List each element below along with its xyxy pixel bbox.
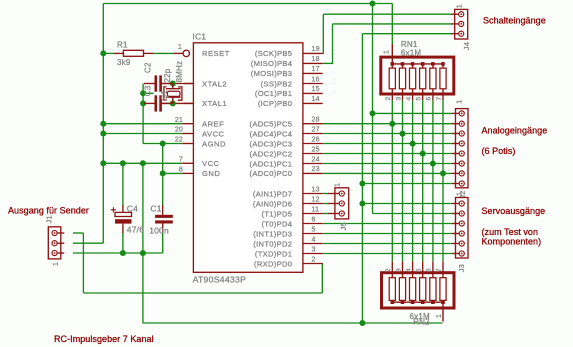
wire net AGND-GND vertical (162, 144, 164, 207)
svg-text:1: 1 (456, 4, 463, 8)
svg-text:Servoausgänge: Servoausgänge (482, 206, 546, 216)
IC1 pin 6 stub (303, 223, 323, 225)
RN2 resistor 4 body (420, 278, 426, 301)
wire net x142 vertical VCC to bottom rail (142, 163, 144, 323)
resistor R1 body (123, 50, 143, 56)
wire net AREF row (103, 123, 182, 125)
wire net PD1 row to J3 (323, 253, 453, 255)
svg-text:(TXD)PD1: (TXD)PD1 (255, 249, 292, 258)
svg-text:12: 12 (312, 196, 320, 203)
J3 pin 1 stub (452, 203, 459, 205)
wire net PD0 drop (321, 264, 323, 294)
crystal Q1 top plate (166, 88, 181, 90)
svg-text:Ausgang für Sender: Ausgang für Sender (8, 205, 89, 215)
wire net RESET from R1 junction (103, 52, 113, 54)
junction XTAL2 crystal (170, 81, 176, 87)
svg-text:(ICP)PB0: (ICP)PB0 (258, 99, 292, 108)
svg-text:RC-Impulsgeber 7 Kanal: RC-Impulsgeber 7 Kanal (54, 334, 154, 344)
svg-text:J5: J5 (339, 222, 348, 230)
J2 pin 3 stub (452, 133, 459, 135)
svg-text:8MHz: 8MHz (175, 61, 184, 83)
J5 pin 1 circle (339, 191, 344, 196)
J2 pin 5 stub (452, 153, 459, 155)
resistor network RN1 box (381, 57, 454, 94)
connector J2 body (456, 109, 469, 188)
wire net R5 vertical RN1-RN2 (422, 100, 424, 261)
wire net R4 vertical RN1-RN2 (412, 100, 414, 261)
svg-text:1: 1 (178, 44, 182, 51)
IC1 pin 16 stub (303, 83, 323, 85)
RN2 R5 top stub (432, 261, 434, 277)
J4 pin 3 circle (459, 31, 464, 36)
junction XTAL1 crystal (170, 100, 176, 106)
J4 pin 1 circle (459, 12, 464, 17)
wire net R3 vertical RN1-RN2 (402, 100, 404, 261)
capacitor C3 plate 2 (159, 95, 162, 111)
RN2 internal common rail (392, 301, 443, 303)
resistor network RN2 box (382, 273, 455, 308)
wire net J4 row2 vert to PB4 (332, 24, 334, 64)
svg-text:C1: C1 (150, 204, 161, 214)
junction AREF tap (100, 121, 106, 127)
svg-text:6x1M: 6x1M (401, 48, 421, 57)
svg-text:22p: 22p (163, 68, 172, 82)
IC1 pin 23 stub (303, 172, 323, 174)
wire net J4 row3 horiz (362, 33, 452, 35)
svg-text:16: 16 (312, 76, 320, 83)
crystal Q1 left bracket (164, 87, 167, 100)
IC1 pin 24 stub (303, 163, 323, 165)
capacitor C3 plate 1 (155, 95, 158, 111)
J4 pin 2 circle (459, 21, 464, 26)
wire net J1 pin2 row (73, 242, 103, 244)
connector J1 body (48, 227, 61, 259)
svg-text:17: 17 (312, 66, 320, 73)
crystal Q1 bottom plate (166, 96, 181, 98)
IC1 pin 8 GND stub (182, 172, 193, 174)
capacitor C2 plate 1 (155, 75, 158, 91)
IC1 pin 7 VCC stub (182, 162, 193, 164)
svg-text:3: 3 (312, 246, 316, 253)
capacitor C3 left pin (144, 102, 155, 104)
wire net C1 bottom to rail (162, 232, 164, 253)
wire net J3 pin1 row (362, 203, 452, 205)
svg-text:6x1M: 6x1M (410, 312, 430, 321)
wire net VCC row (103, 162, 182, 164)
junction x143 y93 (140, 90, 146, 96)
RN2 R6 top stub (442, 261, 444, 277)
J2 pin 3 circle (459, 131, 464, 136)
svg-text:IC1: IC1 (192, 32, 206, 42)
svg-text:(AIN1)PD7: (AIN1)PD7 (253, 189, 292, 198)
wire net rail y293 (83, 292, 322, 294)
IC1 pin 19 stub (303, 52, 323, 54)
svg-text:(INT0)PD2: (INT0)PD2 (253, 239, 292, 248)
svg-text:1: 1 (384, 50, 391, 54)
svg-text:(MOSI)PB3: (MOSI)PB3 (251, 69, 293, 78)
IC1 pin 14 stub (303, 102, 323, 104)
crystal Q1 bottom stub (172, 97, 174, 103)
J3 pin 4 stub (452, 233, 459, 235)
RN1 R4 top stub (422, 64, 424, 68)
wire net XTAL2 gap (162, 83, 194, 85)
capacitor C1 top pin (162, 205, 164, 215)
crystal Q1 top stub (172, 84, 174, 89)
IC1 pin 18 stub (303, 62, 323, 64)
IC1 pin 22 AGND stub (182, 143, 193, 145)
svg-text:1: 1 (457, 192, 464, 196)
J2 pin 4 circle (459, 141, 464, 146)
J2 pin 1 circle (459, 111, 464, 116)
J1 pin 1 circle (52, 230, 57, 235)
wire net PD5 stub to J5 (323, 213, 328, 215)
svg-text:2: 2 (385, 97, 392, 101)
J2 pin 6 stub (452, 163, 459, 165)
svg-text:(INT1)PD3: (INT1)PD3 (253, 229, 292, 238)
svg-text:(RXD)PD0: (RXD)PD0 (254, 259, 292, 268)
IC1 pin XTAL2 stub (184, 83, 194, 85)
wire net J3 pin2 row (373, 213, 453, 215)
capacitor C2 plate 2 (159, 75, 162, 91)
svg-text:XTAL1: XTAL1 (202, 99, 227, 108)
svg-text:(AIN0)PD6: (AIN0)PD6 (253, 199, 292, 208)
J5 pin 3 circle (339, 211, 344, 216)
J3 pin 6 circle (459, 251, 464, 256)
wire net J4 row1 horiz (323, 13, 452, 15)
J3 pin 2 stub (452, 213, 459, 215)
IC1 pin 26 stub (303, 143, 323, 145)
IC1 pin 13 stub (303, 193, 323, 195)
svg-text:4: 4 (405, 268, 412, 272)
svg-text:1: 1 (436, 314, 443, 318)
wire net AVCC row (103, 133, 182, 135)
svg-text:AGND: AGND (202, 139, 226, 148)
svg-text:AVCC: AVCC (202, 129, 225, 138)
junction VCC x142 (140, 160, 146, 166)
capacitor C4 plus sign (111, 207, 116, 212)
svg-text:24: 24 (312, 156, 320, 163)
wire net C4 bottom vertical (122, 232, 124, 253)
RN1 R6 top stub (442, 64, 444, 68)
svg-text:C2: C2 (144, 62, 153, 73)
RN1 R3 top square (411, 62, 415, 66)
RN1 R3 bottom stub (412, 89, 414, 101)
svg-text:1: 1 (335, 183, 342, 187)
svg-text:RESET: RESET (202, 49, 230, 58)
wire net V+ top rail (103, 3, 392, 5)
RN2 resistor 6 body (440, 278, 446, 301)
op-amp IC1 body AT90S4433P (193, 43, 303, 272)
wire net PC0 row to J2 (323, 172, 453, 174)
wire net XTAL2 corner vert (142, 84, 144, 144)
IC1 pin 21 AREF stub (182, 123, 193, 125)
junction GND x162 (160, 170, 166, 176)
wire net C4 top vertical (122, 163, 124, 206)
RN2 R5 bottom square (431, 300, 435, 304)
svg-text:25: 25 (312, 146, 320, 153)
IC1 pin 17 stub (303, 72, 323, 74)
RN1 R2 top stub (402, 64, 404, 68)
J2 pin 1 stub (452, 112, 459, 114)
svg-text:5: 5 (312, 226, 316, 233)
junction J2 pin8 x362 (359, 181, 365, 187)
svg-text:3k9: 3k9 (117, 58, 131, 67)
wire net J1 pin1 row (73, 232, 83, 234)
wire net PB5 stub (323, 52, 324, 54)
svg-text:C3: C3 (143, 85, 152, 96)
IC1 pin 4 stub (303, 243, 323, 245)
IC1 pin 1 RESET bubble (183, 50, 189, 56)
svg-text:13: 13 (312, 186, 320, 193)
wire net PD7 stub to J5 (323, 193, 328, 195)
svg-text:(T1)PD5: (T1)PD5 (262, 209, 293, 218)
J3 pin 6 stub (452, 253, 459, 255)
junction PC3 to RN vertical (410, 141, 416, 147)
wire net PD2 row to J3 (323, 243, 453, 245)
svg-text:11: 11 (312, 206, 320, 213)
RN1 R4 top square (421, 62, 425, 66)
svg-text:VCC: VCC (202, 159, 220, 168)
RN2 resistor 3 body (410, 278, 416, 301)
junction GND rail x142 (140, 250, 146, 256)
RN1 resistor 3 body (410, 68, 416, 89)
junction PC5 to RN vertical (389, 121, 395, 127)
svg-text:(ADC1)PC1: (ADC1)PC1 (250, 159, 293, 168)
wire net V+ RN1 pin1 drop (391, 4, 393, 45)
junction PC4 to RN vertical (400, 131, 406, 137)
svg-text:J3: J3 (457, 264, 466, 272)
junction GND rail C4 (120, 250, 126, 256)
svg-text:(T0)PD4: (T0)PD4 (262, 219, 293, 228)
svg-text:Q1: Q1 (160, 90, 169, 101)
J5 pin 1 stub (328, 193, 339, 195)
svg-text:14: 14 (312, 96, 320, 103)
J1 pin 2 stub (57, 242, 64, 244)
wire net J4 row1 vert to PB5 (322, 14, 324, 53)
RN2 resistor 2 body (399, 278, 405, 301)
svg-text:R1: R1 (117, 41, 128, 50)
svg-text:J1: J1 (45, 215, 54, 223)
svg-text:28: 28 (312, 117, 320, 124)
J1 pin 1 stub (57, 232, 64, 234)
J2 pin 6 circle (459, 161, 464, 166)
svg-text:23: 23 (312, 166, 320, 173)
svg-text:4: 4 (405, 97, 412, 101)
junction PC0 to RN vertical (440, 170, 446, 176)
RN1 R2 top square (401, 62, 405, 66)
RN1 resistor 6 body (440, 68, 446, 89)
IC1 pin 28 stub (303, 123, 323, 125)
J2 pin 7 stub (452, 172, 459, 174)
RN1 R2 bottom stub (402, 89, 404, 101)
svg-text:7: 7 (436, 97, 443, 101)
IC1 pin XTAL1 stub (184, 102, 194, 104)
J2 pin 8 stub (452, 183, 459, 185)
junction top rail x372 (370, 1, 376, 7)
svg-text:GND: GND (202, 169, 220, 178)
svg-text:27: 27 (312, 126, 320, 133)
capacitor C1 plate 2 (155, 220, 173, 223)
RN1 internal common rail (392, 63, 443, 65)
wire net J2 pin8 row (362, 183, 452, 185)
IC1 pin 11 stub (303, 213, 323, 215)
wire net RESET R1 to pin (154, 52, 174, 54)
svg-text:5: 5 (416, 268, 423, 272)
svg-text:2: 2 (312, 256, 316, 263)
svg-text:C4: C4 (127, 204, 138, 214)
IC1 pin 2 stub (303, 263, 323, 265)
RN1 R5 top square (431, 62, 435, 66)
RN2 R2 top stub (402, 261, 404, 277)
svg-text:19: 19 (312, 46, 320, 53)
svg-text:AT90S4433P: AT90S4433P (193, 275, 247, 285)
RN2 R4 top stub (422, 261, 424, 277)
J2 pin 8 circle (459, 181, 464, 186)
J3 pin 2 circle (459, 211, 464, 216)
junction bottom rail x362 (359, 320, 365, 326)
RN2 resistor 5 body (430, 278, 436, 301)
RN1 resistor 2 body (399, 68, 405, 89)
wire net R2 vertical RN1-RN2 (391, 100, 393, 261)
RN2 R1 top stub (391, 261, 393, 277)
wire net stub at y93 (143, 92, 154, 94)
svg-text:47/6: 47/6 (127, 224, 144, 234)
RN2 R1 bottom square (391, 300, 395, 304)
junction AGND x162 (160, 141, 166, 147)
svg-text:5: 5 (416, 97, 423, 101)
svg-text:XTAL2: XTAL2 (202, 79, 227, 88)
capacitor C2 right pin (162, 83, 173, 85)
wire net AGND row (143, 143, 182, 145)
crystal Q1 right bracket (178, 87, 182, 100)
wire net GND rail to J1 pin3 (73, 252, 163, 254)
junction x143 XTAL1 (140, 100, 146, 106)
wire net J1 pin1 vertical (82, 233, 84, 293)
J5 pin 3 stub (328, 213, 339, 215)
svg-text:(ADC5)PC5: (ADC5)PC5 (250, 120, 293, 129)
IC1 pin 27 stub (303, 133, 323, 135)
J4 pin 3 stub (451, 33, 459, 35)
J4 pin 2 stub (451, 23, 459, 25)
RN1 R3 top stub (412, 64, 414, 68)
capacitor C1 plate 1 (155, 215, 173, 218)
svg-text:(MISO)PB4: (MISO)PB4 (251, 59, 293, 68)
svg-text:J4: J4 (462, 42, 471, 50)
RN1 pin 1 entry (391, 44, 393, 64)
J2 pin 4 stub (452, 143, 459, 145)
svg-text:18: 18 (312, 56, 320, 63)
J3 pin 5 circle (459, 241, 464, 246)
connector J5 body (335, 188, 349, 219)
RN1 resistor 4 body (420, 68, 426, 89)
IC1 pin 12 stub (303, 203, 323, 205)
capacitor C4 top plate outline (115, 212, 132, 216)
capacitor C4 bottom plate (115, 219, 132, 223)
IC1 pin 15 stub (303, 92, 323, 94)
wire net R7 vertical RN1-RN2 (442, 100, 444, 261)
svg-text:(OC1)PB1: (OC1)PB1 (255, 89, 292, 98)
capacitor C1 bottom pin (162, 224, 164, 233)
svg-text:3: 3 (395, 97, 402, 101)
resistor R1 left pin (113, 52, 123, 54)
RN2 R2 bottom square (401, 300, 405, 304)
wire net PC2 row to J2 (323, 153, 453, 155)
wire net PD6 stub to J5 (323, 203, 328, 205)
svg-text:7: 7 (179, 157, 183, 164)
RN1 R4 bottom stub (422, 89, 424, 101)
J1 pin 3 stub (57, 252, 64, 254)
svg-text:1: 1 (457, 100, 464, 104)
wire net J2 pin1 row (373, 112, 453, 114)
svg-text:4: 4 (312, 236, 316, 243)
IC1 pin 3 stub (303, 253, 323, 255)
wire net PC5 row to J2 (323, 123, 453, 125)
wire net J4 row2 horiz (333, 23, 453, 25)
wire net bottom rail y323 (143, 322, 443, 324)
wire net PC1 row to J2 (323, 163, 453, 165)
IC1 pin 20 AVCC stub (182, 133, 193, 135)
IC1 pin 5 stub (303, 233, 323, 235)
svg-text:100n: 100n (149, 226, 169, 236)
svg-text:20: 20 (175, 127, 183, 134)
junction J2 pin1 x372 (370, 110, 376, 116)
J1 pin 3 circle (52, 250, 57, 255)
svg-text:Analogeingänge: Analogeingänge (482, 126, 548, 136)
J5 pin 2 stub (328, 203, 339, 205)
svg-text:7: 7 (436, 268, 443, 272)
RN2 R4 bottom square (421, 300, 425, 304)
svg-text:(SS)PB2: (SS)PB2 (261, 79, 293, 88)
J2 pin 2 stub (452, 123, 459, 125)
RN2 R3 top stub (412, 261, 414, 277)
wire net V+ vert x372 from top rail (372, 4, 374, 214)
RN2 pin 1 exit (442, 302, 444, 321)
J3 pin 4 circle (459, 231, 464, 236)
wire net GND row (163, 172, 183, 174)
RN1 R6 bottom stub (442, 89, 444, 101)
wire net PC4 row to J2 (323, 133, 453, 135)
svg-text:AREF: AREF (202, 120, 224, 129)
svg-text:(ADC3)PC3: (ADC3)PC3 (250, 139, 293, 148)
svg-text:21: 21 (175, 117, 183, 124)
RN1 resistor 1 body (389, 68, 395, 89)
wire net PD4 row to J3 (323, 223, 453, 225)
svg-text:6: 6 (426, 97, 433, 101)
wire net PD0 stub (322, 263, 324, 265)
J2 pin 5 circle (459, 151, 464, 156)
svg-text:26: 26 (312, 136, 320, 143)
connector J3 body (456, 198, 469, 259)
RN1 R1 top stub (391, 64, 393, 68)
wire net PD3 row to J3 (323, 233, 453, 235)
junction R1/RESET rail (100, 50, 106, 56)
RN1 resistor 5 body (430, 68, 436, 89)
wire net PC3 row to J2 (323, 143, 453, 145)
IC1 pin 25 stub (303, 153, 323, 155)
RN2 resistor 1 body (389, 278, 395, 301)
capacitor C4 bottom pin (122, 224, 124, 233)
crystal Q1 body (167, 91, 180, 96)
svg-text:Komponenten): Komponenten) (482, 236, 542, 246)
svg-text:(SCK)PB5: (SCK)PB5 (255, 49, 292, 58)
svg-text:(ADC2)PC2: (ADC2)PC2 (250, 149, 293, 158)
junction VCC C4 (120, 160, 126, 166)
junction J3 pin1 x362 (359, 201, 365, 207)
junction AVCC tap (100, 131, 106, 137)
svg-text:(ADC0)PC0: (ADC0)PC0 (250, 169, 293, 178)
wire net PB4 stub (323, 62, 333, 64)
junction PC2 to RN vertical (420, 151, 426, 157)
